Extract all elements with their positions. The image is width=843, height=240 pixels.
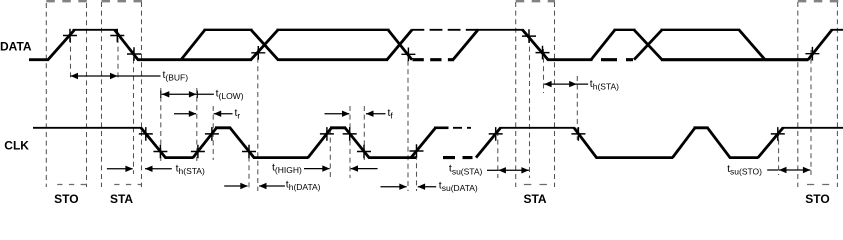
- cross mark CLK rise2 upper: [205, 127, 219, 141]
- th(DATA) right reference dashed line: [257, 49, 259, 191]
- CLK falling edge 1 and low run: [141, 128, 194, 158]
- tsu(DATA) dimension arrows: [381, 186, 407, 188]
- th(DATA) left reference dashed line: [248, 148, 250, 191]
- CLK high run to fall 4: [500, 127, 575, 129]
- DATA high run before second START: [477, 29, 524, 31]
- svg-text:STA: STA: [110, 192, 133, 204]
- dimension arrows: [71, 73, 811, 190]
- DATA STOP rising edge right: [808, 30, 832, 60]
- cross mark CLK rise4 lower: [410, 144, 424, 158]
- STO window 1 right dashed vertical: [86, 3, 88, 187]
- DATA second START falling edge and low run: [523, 30, 593, 60]
- DATA break dashed low: [413, 58, 455, 61]
- STO window 2 right dashed vertical: [836, 2, 838, 187]
- cross mark DATA start2 fall lower: [536, 46, 550, 60]
- STA window 2 top dashed gray edge: [516, 0, 555, 2]
- svg-text:STA: STA: [523, 192, 546, 204]
- DATA dashed low in second break: [601, 58, 633, 61]
- th(DATA) dimension arrows: [224, 185, 247, 187]
- STO window 2 bottom dashed edge: [807, 184, 829, 186]
- DATA rising edge in second break: [591, 30, 615, 60]
- tsu(DATA) right reference dashed line: [416, 146, 418, 191]
- DATA break dashed top: [412, 29, 479, 31]
- STA window 2 left dashed vertical: [515, 2, 517, 187]
- timing cross marks: [63, 29, 819, 159]
- DATA final high segment: [831, 29, 843, 31]
- CLK falling edge 3 and low run: [345, 128, 416, 158]
- th(STA)1 left reference dashed line: [133, 50, 135, 174]
- cross mark DATA start fall lower: [127, 47, 141, 61]
- th(STA)2 dimension arrow: [544, 83, 588, 85]
- cross mark CLK rise7 upper: [771, 127, 785, 141]
- CLK break dashed high: [453, 127, 471, 129]
- t(LOW) dimension arrow: [160, 91, 162, 98]
- tsu(DATA) left reference dashed line: [407, 52, 409, 191]
- CLK initial high segment: [33, 127, 142, 129]
- STO window 2 top dashed gray edge: [798, 0, 839, 2]
- timing labels: [163, 69, 763, 193]
- t(HIGH) left reference dashed line: [329, 129, 331, 178]
- tf dimension arrows: [325, 113, 350, 115]
- t(BUF) dimension arrow: [71, 75, 161, 77]
- STO window 1 left dashed vertical: [45, 3, 47, 187]
- t(BUF) left reference dashed line: [70, 38, 72, 80]
- t(LOW) left reference dashed line: [160, 88, 162, 161]
- STA window 2 bottom dashed edge: [524, 184, 547, 186]
- svg-text:STO: STO: [805, 192, 829, 204]
- cross mark CLK fall1 lower: [153, 145, 167, 159]
- STA window 1 left dashed vertical: [101, 2, 103, 187]
- tf right reference dashed line: [363, 106, 365, 160]
- t(LOW) right and tr left reference dashed line: [196, 88, 198, 161]
- cross mark DATA stop rise: [63, 29, 77, 43]
- t(BUF) right reference dashed line: [117, 38, 119, 80]
- CLK waveform: [33, 128, 843, 158]
- STO window 1 bottom dashed edge: [57, 184, 86, 186]
- CLK pulse 3 top: [330, 126, 346, 129]
- STA window 1 top dashed gray edge: [102, 0, 143, 2]
- DATA first pulse top: [73, 29, 117, 31]
- DATA crossover falling edge and low run: [251, 30, 388, 60]
- tsu(STA) dimension arrow: [487, 169, 498, 171]
- STO window 2 left dashed vertical: [797, 2, 799, 187]
- cross mark CLK rise3 upper: [320, 127, 334, 141]
- CLK falling edge 2 and low run: [230, 128, 309, 158]
- CLK rising edge 3: [308, 128, 332, 158]
- cross mark CLK fall3 upper: [343, 127, 357, 141]
- cross mark CLK fall1 upper: [139, 127, 153, 141]
- DATA rising edge into eye section: [181, 30, 205, 60]
- CLK rising edge 2: [193, 128, 217, 158]
- CLK rising edge before break: [411, 128, 436, 158]
- svg-text:STO: STO: [54, 192, 78, 204]
- CLK pulse 5 top: [694, 126, 709, 129]
- svg-text:CLK: CLK: [4, 138, 29, 152]
- CLK break dashed low: [443, 156, 473, 159]
- CLK falling edge 4 and low run: [574, 128, 673, 158]
- STA window 1 bottom dashed edge: [114, 184, 141, 186]
- DATA START falling edge and low run: [115, 30, 253, 60]
- STA window 1 right dashed vertical: [141, 2, 143, 187]
- tsu(STO) left reference dashed line: [778, 131, 780, 175]
- DATA eye top segment: [204, 29, 253, 31]
- DATA crossover rising edge: [251, 30, 278, 60]
- th(STA)1 dimension arrows: [107, 168, 133, 170]
- cross mark DATA fall before break: [401, 48, 415, 62]
- cross mark CLK fall2 lower: [242, 145, 256, 159]
- tsu(STO) right reference dashed line: [810, 50, 812, 175]
- DATA eye closing falling edge: [739, 30, 765, 60]
- cross mark DATA start2 fall upper: [522, 29, 536, 43]
- tsu(STA) left reference dashed line: [497, 131, 499, 178]
- CLK final rising edge: [758, 128, 783, 158]
- tr dimension arrows: [174, 113, 196, 115]
- cross mark DATA eye rise: [251, 46, 265, 60]
- CLK pulse 2 top: [215, 126, 231, 129]
- CLK short high after rise: [434, 127, 449, 130]
- DATA top between break edges: [614, 29, 636, 31]
- DATA eye top run: [277, 29, 390, 31]
- cross mark DATA start fall upper: [110, 29, 124, 43]
- DATA initial low and STOP rising edge: [29, 30, 75, 60]
- tsu(STO) dimension arrow: [767, 169, 778, 171]
- DATA crossover falling edge right section: [634, 30, 662, 60]
- cross mark CLK fall4 upper: [571, 127, 585, 141]
- DATA crossover rising edge right section: [634, 30, 662, 60]
- cross mark DATA stop2 rise: [805, 47, 819, 61]
- svg-text:DATA: DATA: [0, 40, 32, 54]
- STO window 1 top dashed gray edge: [46, 0, 87, 2]
- cross mark CLK rise5 upper: [489, 127, 503, 141]
- t(HIGH) right and tf left reference dashed line: [349, 106, 351, 178]
- tr right reference dashed line: [212, 106, 214, 160]
- condition labels: [54, 192, 830, 206]
- DATA waveform: [29, 30, 843, 60]
- CLK falling edge 5 and low run: [708, 128, 759, 158]
- STA window 2 right dashed vertical: [554, 2, 556, 187]
- DATA low run right section: [661, 58, 809, 61]
- tsu(STA) right reference dashed line: [529, 38, 531, 178]
- DATA rising edge before break: [387, 30, 412, 60]
- DATA eye top run right section: [661, 29, 741, 31]
- cross mark CLK fall3 lower: [357, 145, 371, 159]
- CLK rising edge after break: [476, 128, 501, 158]
- DATA rising edge after break: [453, 30, 478, 60]
- DATA falling edge before break: [388, 30, 412, 60]
- CLK final high segment: [782, 127, 843, 129]
- th(STA)2 right reference dashed line: [576, 76, 578, 140]
- th(STA)2 left reference dashed line: [543, 49, 545, 93]
- cross mark CLK rise2 lower: [191, 145, 205, 159]
- CLK rising edge 6: [673, 128, 696, 158]
- t(HIGH) dimension arrows: [304, 168, 330, 170]
